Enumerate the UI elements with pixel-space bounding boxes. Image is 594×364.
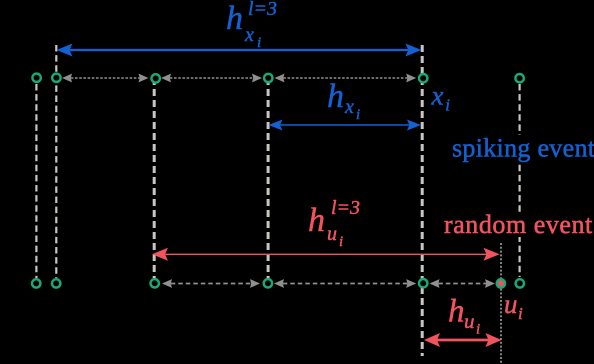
node: random event circle u_i (red filled) <box>497 279 505 287</box>
wire: dashed timeline 4 (x=268) <box>267 78 270 278</box>
svg-text:x: x <box>344 96 354 118</box>
svg-text:u: u <box>327 223 337 245</box>
svg-text:i: i <box>445 96 450 115</box>
node: spiking event circle top-2 <box>52 74 60 82</box>
gray interval arrow bottom 2 <box>274 279 416 288</box>
wire: dashed timeline 5 (x=421, spike x_i) <box>421 45 424 356</box>
node: random event circle bottom-2 <box>52 279 60 287</box>
node: spiking event circle top-1 <box>32 74 40 82</box>
svg-text:l=3: l=3 <box>331 197 360 219</box>
label h_ui <box>448 294 480 338</box>
gray interval arrow top 2 <box>161 74 262 83</box>
node: random event circle bottom-1 <box>32 279 40 287</box>
svg-text:h: h <box>448 294 465 330</box>
svg-text:i: i <box>339 234 343 250</box>
label: spiking event <box>450 134 594 163</box>
gray interval arrow top 1 <box>62 74 149 83</box>
wire: dotted timeline 7 (x=501, random u_i) <box>500 243 502 364</box>
red arrow h_ui (bottom) <box>424 333 502 347</box>
gray interval arrow top 3 <box>275 74 417 83</box>
wire: dashed timeline 1 (x=36) <box>35 84 37 278</box>
svg-text:h: h <box>327 78 344 115</box>
svg-text:x: x <box>244 24 254 46</box>
wire: dashed timeline 3 (x=154) <box>153 78 156 278</box>
svg-text:u: u <box>464 309 475 333</box>
node: spiking event circle top-3 <box>152 74 160 82</box>
label h_xi^l=3 <box>226 0 277 51</box>
label: random event <box>443 210 594 239</box>
blue arrow h_xi^l=3 (top) <box>57 44 422 57</box>
svg-text:i: i <box>518 304 523 323</box>
svg-text:u: u <box>504 289 518 319</box>
svg-text:i: i <box>257 35 261 51</box>
svg-text:i: i <box>356 107 360 123</box>
label x_i <box>431 81 451 115</box>
red arrow h_ui^l=3 <box>152 248 500 261</box>
svg-text:x: x <box>431 81 444 111</box>
svg-text:h: h <box>226 0 243 37</box>
svg-text:h: h <box>308 202 325 239</box>
label h_xi <box>327 78 360 123</box>
node: random event circle bottom-4 <box>264 279 272 287</box>
svg-text:l=3: l=3 <box>248 0 277 20</box>
node: spiking event circle top-6 <box>515 74 523 82</box>
blue arrow h_xi <box>269 120 421 131</box>
label u_i <box>504 289 523 323</box>
svg-text:random event: random event <box>444 210 593 239</box>
wire: dashed timeline 2 (x=56) <box>55 45 57 278</box>
svg-text:i: i <box>476 322 480 338</box>
node: spiking event circle top-4 <box>264 74 272 82</box>
node: random event circle bottom-7 <box>516 279 524 287</box>
gray interval arrow bottom 1 <box>162 279 260 288</box>
svg-text:spiking event: spiking event <box>452 134 594 163</box>
wire: dashed timeline 6 (x=519) <box>518 84 520 277</box>
node: random event circle bottom-3 <box>151 279 159 287</box>
node: spiking event circle x_i <box>419 74 427 82</box>
label h_ui^l=3 <box>308 197 360 250</box>
node: random event circle bottom-5 <box>419 279 427 287</box>
gray interval arrow bottom 3 <box>430 279 496 288</box>
